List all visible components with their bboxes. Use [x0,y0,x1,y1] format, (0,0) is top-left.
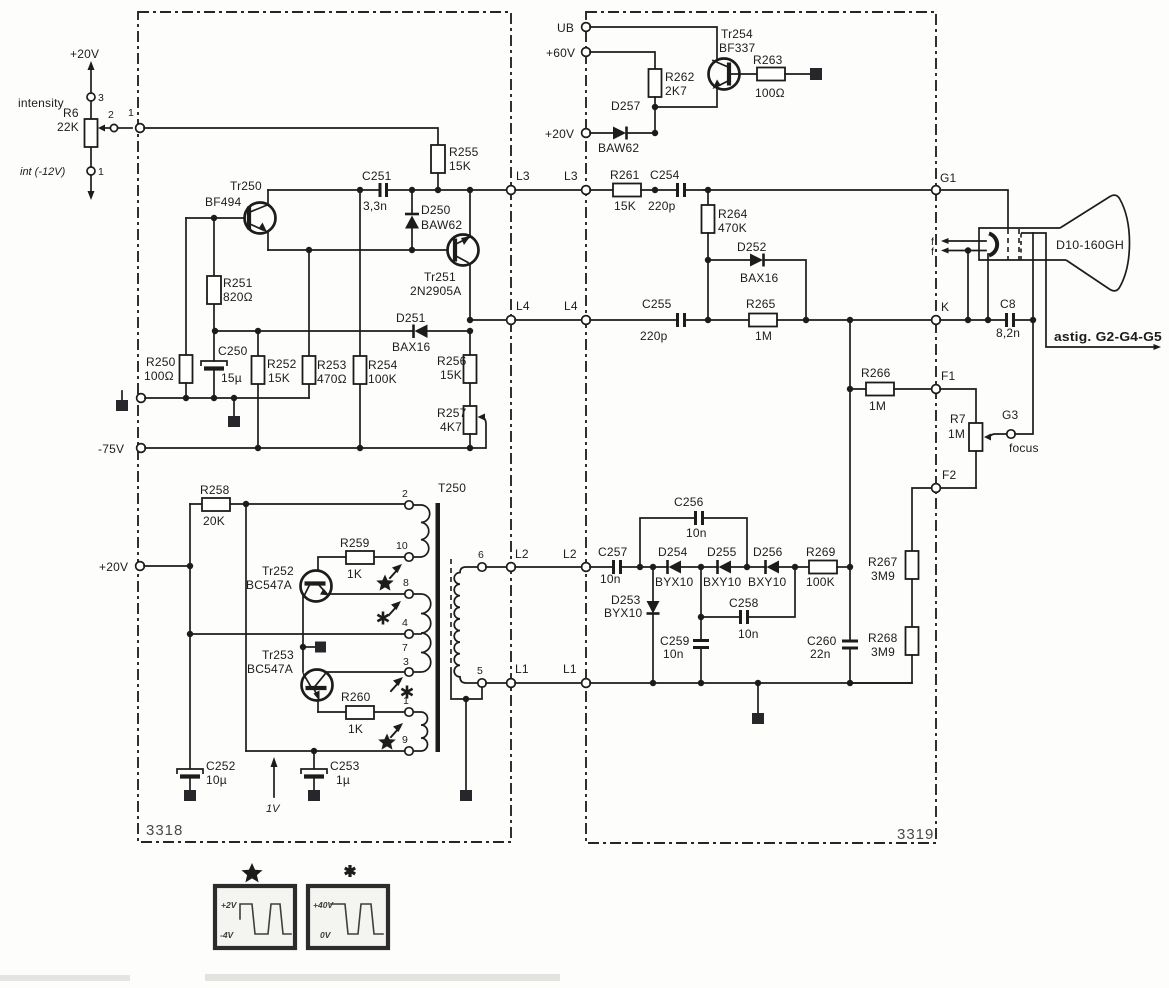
node dot row331/R252 [255,328,261,334]
wire UB to Tr254 collector [590,27,717,59]
capacitor C250 15u (electrolytic) [201,331,248,398]
node dot row250/D250 [409,247,415,253]
node G3 (focus terminal) [1002,408,1039,455]
diode D253 BYX10 (vertical) [604,567,660,683]
wire -75V rail (y=448) [145,447,485,449]
svg-text:1M: 1M [869,399,886,413]
svg-text:R263: R263 [753,53,783,67]
wire +60V to R262 [590,52,655,69]
CRT neck outline [979,228,1066,260]
svg-text:D253: D253 [611,593,641,607]
svg-text:0V: 0V [320,930,332,940]
svg-text:100K: 100K [368,372,397,386]
wire pin5 to L1 border [486,682,507,684]
node dot K row/R266 column [847,317,853,323]
transistor Tr251 2N2905A [410,190,479,320]
svg-text:R255: R255 [449,145,479,159]
capacitor C8 8,2n [996,297,1033,340]
capacitor C252 10u (electrolytic) [177,759,236,801]
node F1 (border) [932,369,956,393]
node pin 2 [402,488,413,509]
node K (border) [932,300,950,324]
capacitor C256 10n (top branch) [640,495,747,567]
astig arrowhead [1154,344,1162,350]
CRT cathode arc [989,234,997,256]
+20V supply arrow (top left) [70,47,99,93]
svg-text:8,2n: 8,2n [996,326,1020,340]
diode D254 BYX10 [655,545,718,589]
node pin 6 [478,549,486,571]
svg-text:3M9: 3M9 [871,569,895,583]
node L4 left-box border [507,299,530,324]
CRT grid G1 (dash-dot) [1007,229,1009,260]
node dot base/R251 [211,215,217,221]
svg-text:1M: 1M [755,329,772,343]
svg-text:15K: 15K [268,371,290,385]
svg-text:-75V: -75V [98,442,124,456]
CRT bell outline [1060,195,1130,291]
svg-text:R268: R268 [868,631,898,645]
svg-text:220p: 220p [640,329,668,343]
waveform inset 2 (+40V/0V) [308,886,388,948]
svg-text:Tr254: Tr254 [721,27,753,41]
resistor R252 15K [252,331,297,448]
svg-text:L3: L3 [564,169,578,183]
svg-text:BAX16: BAX16 [740,271,778,285]
resistor R269 100K [806,545,850,589]
diode D255 BXY10 [703,545,766,589]
svg-text:100Ω: 100Ω [144,369,174,383]
svg-text:C254: C254 [650,168,680,182]
node dot base junction (x=303,y=647) [300,644,306,650]
node dot D257/R262 column [652,130,658,136]
svg-text:R253: R253 [317,358,347,372]
wire R6 bottom with down arrow [88,175,95,200]
node dot K row/D252 column [803,317,809,323]
node dot C8/G3 column [1030,317,1036,323]
wire G1 to CRT [940,190,1008,228]
node dot K/filament [965,317,971,323]
wire column x=246 down to bottom row [245,504,247,751]
node L3 right-box border [564,169,590,194]
ground (row 398) [228,398,240,427]
svg-text:BF337: BF337 [719,41,755,55]
capacitor C257 10n [590,545,668,586]
CRT grid G2 (dash-dot) [1018,229,1020,260]
ground (L1 row) [752,683,764,724]
capacitor C260 22n (vertical) [807,634,858,683]
node (border circle row 398) [137,394,146,403]
waveform inset 1 (+2V/-4V) [215,886,295,948]
svg-text:+2V: +2V [221,900,238,910]
node dot row398/C250 [211,395,217,401]
wire secondary return / ground tap [451,668,482,801]
svg-text:R260: R260 [341,690,371,704]
wire +20V into box [144,565,190,567]
node pin 9 [402,734,413,755]
node pin 10 [396,540,413,561]
svg-text:L1: L1 [563,662,577,676]
node dot diode row/C259 column [698,564,704,570]
wire L1 row (right box) [590,682,912,684]
svg-text:int (-12V): int (-12V) [20,166,66,178]
resistor R258 20K [190,483,246,528]
svg-text:BXY10: BXY10 [748,575,786,589]
wire cathode to K row [987,254,989,320]
svg-text:R252: R252 [267,357,297,371]
node dot G1 row/R264 [705,187,711,193]
svg-text:3M9: 3M9 [871,645,895,659]
svg-text:D252: D252 [737,240,767,254]
node dot diode row/C256 left leg [637,564,643,570]
wire F2 to R267 column [912,488,931,551]
diode D252 BAX16 [708,240,806,320]
wire R266 column x=850 [849,320,851,641]
node dot K/cathode [985,317,991,323]
svg-text:BF494: BF494 [205,195,241,209]
CRT grid bracket G2-G4-G5 [1020,233,1022,260]
svg-text:C253: C253 [330,759,360,773]
node dot C258 branch/C259 column [698,614,704,620]
svg-text:L4: L4 [564,299,578,313]
diode D251 BAX16 [392,311,470,354]
svg-text:astig. G2-G4-G5: astig. G2-G4-G5 [1054,330,1162,344]
svg-text:Tr250: Tr250 [230,179,262,193]
resistor R267 3M9 [868,551,919,627]
node G1 (border) [932,171,957,194]
node dot row190/R254 [357,187,363,193]
node dot row398/R250 [183,395,189,401]
svg-text:D257: D257 [611,99,641,113]
svg-text:10µ: 10µ [206,773,227,787]
resistor R251 820ohm [207,218,253,331]
resistor R266 1M [850,366,932,413]
svg-text:5: 5 [477,665,483,677]
svg-text:+20V: +20V [545,127,574,141]
dashed module box 3318 [138,12,511,842]
asterisk marker near pin 3 (after R260) [391,677,413,699]
svg-text:D251: D251 [396,311,426,325]
svg-text:+40V: +40V [313,900,334,910]
transistor Tr250 BF494 [205,179,276,250]
wire bottom row (y=751) [246,750,405,752]
resistor R259 1K [318,536,405,581]
node pin 1 [403,695,413,716]
node UB (border) [557,21,590,35]
node dot row190/R255 [435,187,441,193]
node dot +20V/vertical [187,563,193,569]
svg-text:R269: R269 [806,545,836,559]
dashed module box 3319 [586,12,936,843]
resistor R254 100K [354,190,398,448]
diode D256 BXY10 [748,545,809,589]
svg-text:100Ω: 100Ω [755,86,785,100]
resistor R264 470K [702,190,748,320]
svg-text:D256: D256 [753,545,783,559]
node L3 left-box border [507,169,530,194]
node dot row331/R251 [212,328,218,334]
node +20V (border) [545,127,590,141]
svg-text:2N2905A: 2N2905A [410,284,461,298]
wire F1 to R7 [940,389,976,423]
wire L3 row cont [388,189,507,191]
resistor R256 15K [437,331,477,406]
wire L3 row (left box, y=190) [268,189,379,191]
node dot diode row/C258 right leg [792,564,798,570]
node -75V (border circle) [137,444,146,453]
svg-text:R261: R261 [610,168,640,182]
svg-text:intensity: intensity [18,96,64,110]
transformer secondary core-adjust dashed line [450,559,452,663]
node dot row331/Tr251 emitter column [467,328,473,334]
svg-text:10n: 10n [600,572,621,586]
svg-text:Tr253: Tr253 [262,648,294,662]
wire L4 between boxes [515,319,582,321]
node dot row250/R253 [306,247,312,253]
svg-text:10n: 10n [686,526,707,540]
transformer secondary winding 6-5 [454,567,478,683]
svg-text:D254: D254 [658,545,688,559]
resistor R261 15K [590,168,677,213]
svg-text:1K: 1K [347,567,362,581]
trimmer R257 4K7 [437,406,486,448]
wire Tr250 base row (y=218) [186,217,245,219]
capacitor C253 1u (electrolytic) [301,751,360,801]
node +60V (border) [546,46,590,60]
svg-text:BC547A: BC547A [246,578,292,592]
svg-text:+20V: +20V [70,47,99,61]
svg-text:C8: C8 [1000,297,1016,311]
node dot R266/column [847,386,853,392]
potentiometer R7 1M (focus) [948,412,1007,488]
wire L3 between boxes [515,189,582,191]
node dot filament/K column [965,247,971,253]
capacitor C255 220p [590,297,749,343]
node dot D252 row/R264 [705,257,711,263]
node 2 (R6 wiper terminal) [108,109,118,132]
terminal square (R263 output) [810,68,822,80]
wire G3 to CRT focus grid [1015,233,1033,434]
svg-text:R254: R254 [368,358,398,372]
astig grid lead [1046,260,1156,347]
node dot diode row/R266 column [847,564,853,570]
node L1 right-box border [563,662,590,687]
node dot L1/C259 [698,680,704,686]
svg-text:3318: 3318 [146,822,183,839]
svg-text:R265: R265 [746,297,776,311]
wire ground row (y=398) [145,397,309,399]
transformer primary tap 4/7 [413,633,421,635]
node dot L3/R262 column [652,187,658,193]
svg-text:Tr251: Tr251 [424,270,456,284]
node dot row320/Tr251 emitter (L4) [467,317,473,323]
node 3 (R6 top terminal) [87,92,104,104]
node pin 8 [403,577,413,598]
svg-text:C257: C257 [598,545,628,559]
svg-text:R250: R250 [146,355,176,369]
node pin 5 [477,665,486,687]
resistor R262 2K7 [649,69,695,133]
svg-text:9: 9 [402,734,408,746]
svg-text:C250: C250 [218,344,248,358]
wire D251 row (y=331) [215,330,413,332]
svg-text:C255: C255 [642,297,672,311]
node dot row398/ground stub [231,395,237,401]
node dot row190/Tr251 collector [467,187,473,193]
svg-text:7: 7 [402,642,408,654]
node 1 (R6 bottom terminal) [87,166,104,178]
node dot diode row/D253 [650,564,656,570]
svg-text:G1: G1 [940,171,957,185]
svg-text:R264: R264 [718,207,748,221]
wire node1 to R255 top (y=128) [144,128,438,145]
ground (Tr252/Tr253 base) [303,642,326,653]
svg-text:220p: 220p [648,199,676,213]
svg-text:C260: C260 [807,634,837,648]
filament wire f (lower) [931,246,986,258]
svg-text:15K: 15K [440,368,462,382]
svg-text:3: 3 [98,92,104,104]
svg-text:F1: F1 [941,369,956,383]
svg-text:8: 8 [403,577,409,589]
svg-text:L1: L1 [515,662,529,676]
svg-text:BC547A: BC547A [247,662,293,676]
node dot row190/D250 [409,187,415,193]
node dot diode row/C256 right leg [744,564,750,570]
wire Tr251 base row (y=250) [268,249,447,251]
node L1 left-box border [507,662,529,687]
wire G1 row [704,189,932,191]
star marker near pin 9 [378,723,403,750]
transformer primary winding 2-10 [413,505,430,557]
svg-text:22n: 22n [810,647,831,661]
wire filament to K row [967,251,969,321]
svg-text:BXY10: BXY10 [703,575,741,589]
resistor R255 15K [431,145,479,190]
wire L4 row to border [470,319,507,321]
svg-text:3319: 3319 [897,826,934,843]
node dot L1/D253 [650,680,656,686]
svg-text:L4: L4 [516,299,530,313]
svg-text:3,3n: 3,3n [363,199,387,213]
svg-text:1V: 1V [266,803,281,815]
svg-text:15K: 15K [614,199,636,213]
svg-text:focus: focus [1009,441,1039,455]
svg-text:F2: F2 [942,468,957,482]
capacitor C259 10n (vertical) [660,567,709,683]
wire L2 between boxes [515,566,582,568]
transistor Tr253 BC547A [247,647,405,712]
svg-text:D250: D250 [421,203,451,217]
wire wiper to node 1 [118,127,132,129]
svg-text:1M: 1M [948,427,965,441]
svg-text:2K7: 2K7 [665,84,687,98]
svg-text:4: 4 [402,617,408,629]
svg-text:2: 2 [108,109,114,121]
svg-text:C256: C256 [674,495,704,509]
svg-text:R257: R257 [437,406,467,420]
svg-text:Tr252: Tr252 [262,564,294,578]
svg-text:1: 1 [98,166,104,178]
svg-text:2: 2 [402,488,408,500]
svg-text:20K: 20K [203,514,225,528]
svg-text:+60V: +60V [546,46,575,60]
node 1 (border terminal) [128,107,144,132]
svg-text:10: 10 [396,540,408,552]
svg-text:+20V: +20V [99,560,128,574]
svg-text:R266: R266 [861,366,891,380]
svg-text:6: 6 [478,549,484,561]
svg-text:R6: R6 [63,106,79,120]
wire +20V vertical column x=190 [189,504,191,768]
svg-text:R258: R258 [200,483,230,497]
svg-text:R259: R259 [340,536,370,550]
node +20V (border circle) [136,562,145,571]
capacitor C254 220p [648,168,704,213]
capacitor C258 10n (branch) [701,567,795,641]
svg-text:D255: D255 [707,545,737,559]
node pin 3 [403,656,413,676]
transformer primary winding 1-9 [413,712,428,751]
svg-text:K: K [941,300,949,314]
diode D250 BAW62 [405,190,462,250]
star marker (left waveform) [242,863,263,882]
asterisk marker near pin 8 [377,601,401,625]
svg-text:-4V: -4V [220,930,235,940]
svg-text:470K: 470K [718,221,747,235]
svg-text:R256: R256 [437,354,467,368]
node dot rail/R252 [255,445,261,451]
svg-text:1: 1 [128,107,134,119]
transistor Tr254 BF337 [656,27,757,107]
node dot row634/+20V column [187,631,193,637]
node pin 4/7 [402,617,413,654]
transformer primary winding 8-4-3 [413,594,431,672]
svg-text:C258: C258 [729,596,759,610]
wire R258 to pin 2 [246,503,405,505]
transistor Tr252 BC547A [246,564,405,647]
svg-text:R262: R262 [665,70,695,84]
resistor R263 100ohm [753,53,810,100]
svg-text:3: 3 [403,656,409,668]
svg-text:10n: 10n [738,627,759,641]
svg-text:L3: L3 [516,169,530,183]
svg-text:1µ: 1µ [336,773,350,787]
resistor R253 470ohm [303,250,347,398]
filament wire f (upper) [931,236,986,248]
svg-text:470Ω: 470Ω [317,372,347,386]
scan artifact bars (bottom) [0,975,130,981]
node dot L1/C260 [847,680,853,686]
svg-text:BAW62: BAW62 [421,218,462,232]
node dot R262/Tr254 emitter [652,104,658,110]
svg-text:C252: C252 [206,759,236,773]
svg-text:UB: UB [557,21,574,35]
star marker near pin 10 [376,564,402,591]
wire row 4/7 (y=634) [190,633,405,635]
svg-text:R267: R267 [868,555,898,569]
potentiometer R6 22K [57,101,110,167]
svg-text:100K: 100K [806,575,835,589]
wire L1 between boxes [515,682,582,684]
svg-text:10n: 10n [663,647,684,661]
node L2 right-box border [563,547,590,571]
resistor R260 1K [318,690,405,736]
wire pin6 to L2 border [486,566,507,568]
svg-text:L2: L2 [515,547,529,561]
asterisk marker (right waveform) [345,865,355,877]
svg-text:BYX10: BYX10 [604,606,642,620]
